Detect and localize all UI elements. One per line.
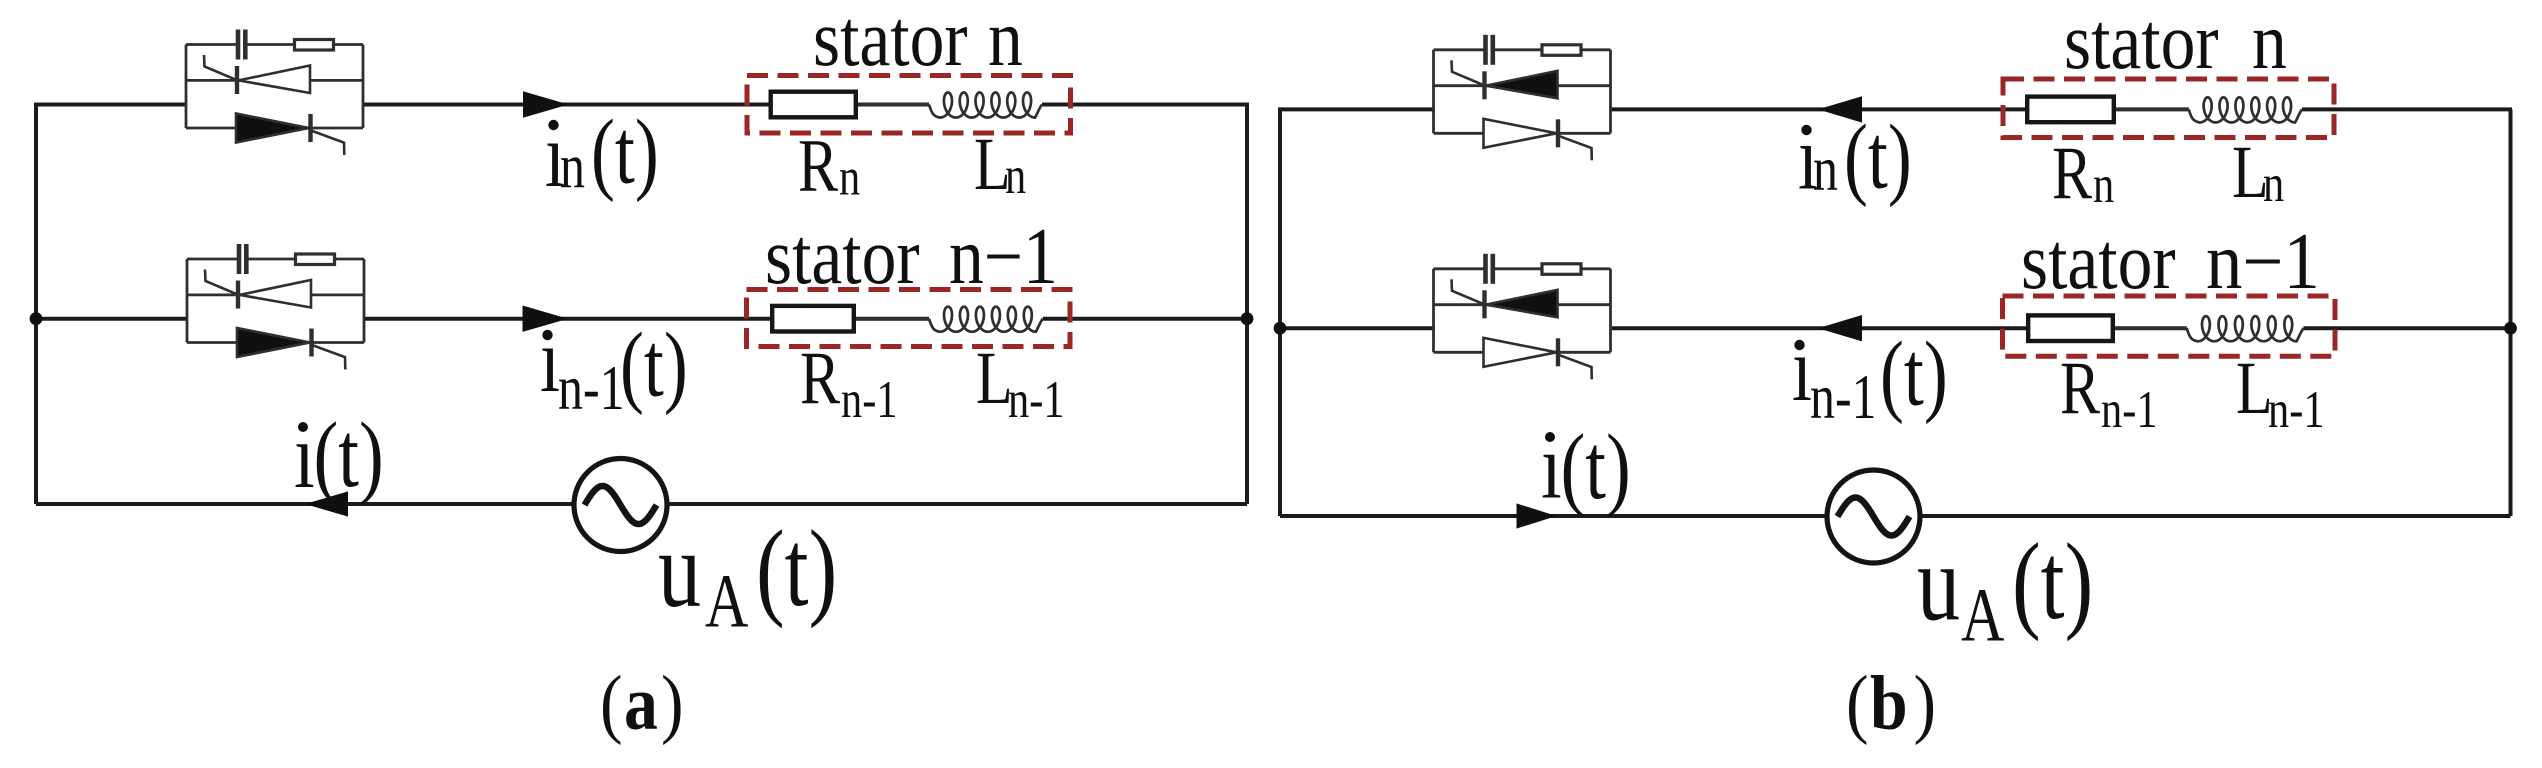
svg-text:n−1: n−1 [2206,217,2320,306]
svg-text:n: n [560,132,585,202]
node A-left rail (left vertical wire, circuit a) [34,105,38,505]
wire from resistor R_n-1 (a) to inductor L_n-1 (a) [856,317,929,320]
junction dot right rail / branch n-1 (b) [2504,322,2517,335]
svg-text:n: n [839,148,860,207]
AC source (a) sine symbol [585,486,657,524]
snubber top rail wire b-n1 [1434,267,1484,270]
current arrow i(t) (a) pointing left [305,491,348,516]
thyristor T1 a-n gate lead [204,55,237,80]
thyristor switch block b-n1: box right edge [1609,269,1612,353]
middle rail wire a-n [186,79,363,82]
svg-text:n: n [1005,147,1026,206]
junction dot right rail / branch n-1 (a) [1241,312,1254,325]
svg-text:L: L [976,336,1013,420]
svg-text:stator: stator [2021,218,2176,307]
resistor R_n (b) body [2027,97,2114,123]
wire: branch n from left rail to switch block (a) [34,103,186,107]
inductor L_n-1 (b) coil [2187,316,2304,341]
stator n (a) dashed boundary box [747,76,1071,134]
svg-text:n-1: n-1 [1008,371,1065,430]
node A-right rail (right vertical wire, circuit a) [1245,105,1249,505]
wire: branch n-1 from left rail to switch block (a) [34,317,187,321]
thyristor T2 b-n cathode bar [1556,119,1560,147]
svg-text:A: A [705,559,748,643]
thyristor T1 b-n gate lead [1452,60,1485,85]
svg-text:(t): (t) [1561,416,1631,519]
wire: stator n-1 resistor to coil (a) [856,317,929,321]
svg-text:R: R [798,123,839,207]
thyristor T2 a-n1 cathode bar [309,329,313,357]
wire: branch n from left rail to switch block (b) [1278,107,1434,111]
svg-text:ı: ı [294,405,315,508]
wire from resistor R_n (a) to inductor L_n (a) [858,103,929,106]
thyristor switch block b-n: box right edge [1609,50,1612,134]
dot over i of i_n-1(t) (b) [1794,340,1804,350]
dot over i of i(t) (a) [298,422,308,432]
junction dot left rail / branch n-1 (a) [30,312,43,325]
bottom rail wire b-n1 [1434,351,1611,354]
snubber top rail wire b-n [1434,48,1484,51]
svg-text:(: ( [1846,660,1869,746]
middle rail wire b-n [1434,84,1611,87]
svg-text:n−1: n−1 [949,213,1058,302]
svg-text:L: L [2236,346,2273,430]
resistor R_n-1 (b) body [2028,315,2113,341]
svg-text:ı: ı [1541,416,1562,519]
thyristor T1 a-n1 cathode bar [236,281,240,309]
svg-text:(t): (t) [620,313,688,416]
thyristor T1 a-n (points left) [239,66,311,94]
svg-text:(t): (t) [314,404,384,507]
thyristor T1 b-n1 cathode bar [1482,290,1486,318]
wire: branch n-1 from switch block to stator n-1 (b) [1612,326,2030,330]
svg-text:stator: stator [813,0,968,83]
stator n-1 (b) dashed boundary box [2003,296,2336,356]
thyristor switch block a-n1: box left edge [186,259,189,343]
middle rail wire a-n1 [187,293,364,296]
resistor R_n (a) body [771,92,856,118]
svg-text:(t): (t) [591,100,659,203]
inductor L_n (a) coil [929,92,1042,117]
svg-text:(t): (t) [1844,105,1912,208]
svg-text:n-1: n-1 [558,353,625,423]
thyristor T2 a-n cathode bar [308,114,312,142]
thyristor T1 b-n cathode bar [1482,71,1486,99]
junction dot left rail / branch n-1 (b) [1274,322,1287,335]
current arrow i(t) (b) pointing right [1517,503,1557,528]
svg-text:n-1: n-1 [841,371,898,430]
thyristor T2 a-n1 (points right, conducting) [237,328,310,357]
thyristor T1 a-n1 gate lead [205,270,238,295]
snubber top rail wire a-n [186,43,236,46]
svg-text:ı: ı [1792,317,1812,420]
svg-text:u: u [1917,523,1960,644]
snubber top rail wire a-n1 [187,258,237,261]
bottom loop wire (a) [36,502,1247,506]
thyristor T1 b-n1 (points left, conducting) [1486,290,1558,318]
thyristor switch block b-n1: box left edge [1432,269,1435,353]
wire: branch n-1 from left rail to switch block (b) [1278,326,1435,330]
resistor R_n-1 (a) body [772,306,854,332]
wire: stator n resistor to coil (a) [856,103,929,107]
current arrow i_n-1(t) (a) pointing right [523,306,569,332]
svg-text:(t): (t) [756,508,837,629]
svg-text:A: A [1961,573,2004,657]
svg-text:n-1: n-1 [1810,362,1877,432]
snubber capacitor Ca-n1 plates [237,244,242,274]
wire: branch n from switch block to stator n (a) [363,103,773,107]
svg-text:n: n [2263,155,2284,214]
svg-text:n: n [2252,0,2287,86]
svg-text:n: n [1813,134,1838,204]
thyristor switch block b-n: box left edge [1432,50,1435,134]
current arrow i_n(t) (b) pointing left [1818,96,1862,122]
bottom rail wire a-n1 [187,341,364,344]
snubber capacitor Cb-n1 plates [1483,254,1488,284]
dot over i of i_n-1(t) (a) [542,330,552,340]
svg-text:n: n [2093,156,2114,215]
wire: stator n coil to right rail (a) [1042,103,1249,107]
svg-text:): ) [661,660,684,746]
AC source u_A(t) (b) circle [1827,470,1920,563]
svg-text:(: ( [600,660,623,746]
thyristor T2 a-n gate lead [311,131,344,156]
inductor L_n-1 (a) coil [929,307,1043,332]
wire from resistor R_n-1 (b) to inductor L_n-1 (b) [2115,327,2187,330]
inductor L_n (b) coil [2189,97,2302,122]
thyristor switch block a-n1: box right edge [363,259,366,343]
svg-text:stator: stator [765,213,920,302]
wire: stator n-1 coil to right rail (a) [1043,317,1249,321]
dot over i of i_n(t) (b) [1801,125,1811,135]
wire: branch n-1 from switch block to stator n-1 (a) [364,317,773,321]
current arrow i_n-1(t) (b) pointing left [1818,315,1862,341]
thyristor switch block a-n: box right edge [362,45,365,129]
wire: stator n resistor to coil (b) [2114,107,2189,111]
middle rail wire b-n1 [1434,303,1611,306]
svg-text:R: R [2052,131,2093,215]
svg-text:R: R [2060,346,2101,430]
svg-text:R: R [800,336,841,420]
AC source (b) sine symbol [1838,498,1910,536]
svg-text:a: a [624,660,658,746]
stator n (b) dashed boundary box [2003,79,2334,138]
svg-text:stator: stator [2064,0,2219,86]
snubber capacitor Ca-n plates [236,30,241,60]
thyristor switch block a-n: box left edge [185,45,188,129]
dot over i of i(t) (b) [1545,432,1555,442]
svg-text:n-1: n-1 [2101,381,2158,440]
node B-left rail (left vertical wire, circuit b) [1278,109,1282,516]
svg-text:u: u [658,509,701,630]
dot over i of i_n(t) (a) [548,120,558,130]
svg-text:n: n [988,0,1023,83]
thyristor T2 b-n1 (points right) [1484,338,1557,367]
bottom rail wire b-n [1434,132,1611,135]
snubber resistor Rb-n [1542,45,1581,56]
thyristor T2 b-n (points right) [1484,119,1557,148]
thyristor T2 a-n1 gate lead [312,345,345,370]
wire: stator n-1 resistor to coil (b) [2113,326,2187,330]
thyristor T1 b-n1 gate lead [1452,279,1485,304]
svg-text:ı: ı [540,308,560,411]
snubber resistor Rb-n1 [1542,264,1581,275]
wire: branch n from switch block to stator n (b) [1611,107,2029,111]
node B-right rail (right vertical wire, circuit b) [2509,109,2513,516]
snubber capacitor Cb-n plates [1483,35,1488,65]
stator n-1 (a) dashed boundary box [747,290,1071,347]
svg-text:(t): (t) [1880,322,1948,425]
thyristor T2 b-n gate lead [1559,136,1592,161]
bottom loop wire (b) [1280,514,2511,518]
bottom rail wire a-n [186,127,363,130]
wire: stator n coil to right rail (b) [2302,107,2512,111]
thyristor T2 a-n (points right, conducting) [236,114,309,143]
snubber resistor Ra-n1 [296,254,335,265]
svg-text:n-1: n-1 [2268,381,2325,440]
svg-text:b: b [1870,660,1908,746]
snubber resistor Ra-n [295,40,334,51]
thyristor T2 b-n1 cathode bar [1556,338,1560,366]
AC source u_A(t) (a) circle [574,459,667,552]
svg-text:): ) [1914,660,1937,746]
thyristor T2 b-n1 gate lead [1559,355,1592,380]
wire from resistor R_n (b) to inductor L_n (b) [2116,108,2189,111]
wire: stator n-1 coil to right rail (b) [2304,326,2513,330]
current arrow i_n(t) (a) pointing right [523,91,569,117]
thyristor T1 a-n cathode bar [235,66,239,94]
thyristor T1 b-n (points left, conducting) [1486,71,1558,99]
thyristor T1 a-n1 (points left) [240,280,312,308]
svg-text:(t): (t) [2012,521,2093,642]
